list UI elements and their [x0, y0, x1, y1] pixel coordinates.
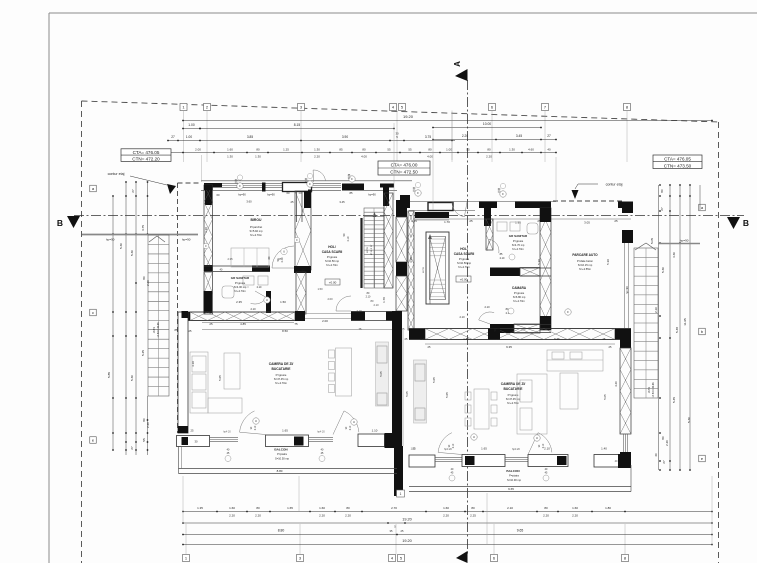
bottom dimension chain row1	[182, 506, 713, 518]
tiny circled tags above top wall	[237, 173, 505, 188]
hol door arc to living	[336, 292, 371, 311]
svg-text:80: 80	[544, 506, 548, 510]
svg-text:60: 60	[217, 193, 220, 197]
balcony drain tags left	[225, 449, 325, 462]
svg-text:1.05: 1.05	[411, 448, 416, 451]
svg-text:1.65: 1.65	[282, 429, 288, 433]
svg-text:hp4 20: hp4 20	[317, 431, 325, 434]
CTA CTN box left	[121, 149, 171, 162]
left exterior stair	[148, 235, 169, 396]
svg-text:F: F	[351, 177, 353, 181]
svg-text:27: 27	[171, 135, 175, 139]
svg-text:8.80: 8.80	[277, 469, 283, 473]
svg-text:2.10: 2.10	[507, 506, 513, 510]
top dimension chain third row	[167, 132, 557, 142]
svg-text:BALCON: BALCON	[506, 469, 520, 473]
svg-text:2.10: 2.10	[347, 236, 350, 241]
svg-text:F: F	[502, 192, 504, 196]
svg-text:CASA SCARII: CASA SCARII	[322, 250, 343, 254]
axis markers left side	[90, 185, 97, 443]
svg-text:80: 80	[256, 506, 260, 510]
svg-text:25: 25	[191, 429, 194, 433]
svg-text:1.85: 1.85	[420, 337, 426, 341]
svg-text:2.20: 2.20	[665, 440, 669, 446]
svg-text:1.50: 1.50	[280, 300, 286, 304]
svg-text:2.20: 2.20	[255, 514, 261, 518]
svg-text:85: 85	[350, 191, 353, 195]
svg-text:1.40: 1.40	[601, 447, 607, 451]
gr sanitar walls left	[204, 272, 307, 314]
lot boundary dashed	[82, 101, 721, 563]
svg-text:P=dale beton: P=dale beton	[577, 259, 593, 263]
svg-text:19.20: 19.20	[403, 114, 414, 119]
svg-text:+0.00: +0.00	[329, 281, 337, 285]
svg-text:18 TR: 18 TR	[648, 386, 651, 393]
gr sanitar door arc left	[242, 286, 266, 304]
left unit window sill tags hp	[223, 431, 325, 434]
left stair direction arrow	[149, 236, 165, 242]
svg-text:2.20: 2.20	[146, 422, 150, 428]
svg-text:9.65: 9.65	[517, 529, 524, 533]
svg-text:U: U	[255, 419, 257, 423]
svg-text:hp=90: hp=90	[625, 286, 629, 294]
living room label left	[269, 362, 294, 385]
svg-text:80: 80	[142, 418, 146, 422]
svg-text:2.35: 2.35	[236, 300, 242, 304]
svg-text:1.87: 1.87	[463, 337, 469, 341]
right unit middle wall horizontal	[405, 329, 631, 350]
left unit left wall birou	[204, 185, 213, 271]
contur etaj dashed line left	[178, 183, 202, 433]
svg-text:19.20: 19.20	[402, 539, 412, 543]
svg-text:4.10: 4.10	[191, 361, 195, 367]
svg-text:hp=90: hp=90	[368, 193, 376, 197]
svg-text:1.65: 1.65	[481, 447, 487, 451]
svg-text:S=5.92 mp: S=5.92 mp	[249, 229, 263, 233]
svg-text:80: 80	[660, 189, 664, 193]
svg-text:S=10.50 mp: S=10.50 mp	[457, 261, 472, 265]
svg-text:P=gresie: P=gresie	[276, 373, 287, 377]
svg-text:2.00: 2.00	[322, 319, 328, 323]
svg-text:5.65: 5.65	[554, 337, 560, 341]
svg-text:5.05: 5.05	[405, 391, 409, 397]
left unit interior vertical wall texts	[203, 237, 300, 249]
svg-text:h=+2.70m: h=+2.70m	[513, 299, 525, 303]
svg-text:3.45: 3.45	[516, 134, 522, 138]
svg-text:1.65: 1.65	[287, 506, 293, 510]
section line B-B	[57, 216, 749, 230]
top dimension chain fourth row detailed	[167, 147, 557, 158]
svg-text:hp=90: hp=90	[238, 193, 246, 197]
svg-text:8.80: 8.80	[278, 529, 285, 533]
svg-text:hp4 20: hp4 20	[512, 448, 520, 451]
svg-text:5.30: 5.30	[606, 259, 610, 265]
right kitchen counter	[547, 350, 603, 371]
svg-text:2.10: 2.10	[356, 309, 362, 313]
svg-text:B: B	[57, 218, 63, 228]
svg-text:8.15: 8.15	[294, 123, 301, 127]
svg-text:h=+2.70m: h=+2.70m	[326, 263, 338, 267]
svg-text:S=10.90 mp: S=10.90 mp	[507, 478, 522, 482]
svg-text:P=gresie: P=gresie	[514, 291, 525, 295]
svg-text:27: 27	[547, 134, 551, 138]
left vertical dimension chain	[107, 181, 150, 455]
svg-text:80: 80	[487, 147, 491, 151]
hol bottom wall stub	[351, 312, 397, 321]
svg-text:h=+2.70m: h=+2.70m	[234, 289, 246, 293]
svg-text:hp=90: hp=90	[182, 238, 191, 242]
bottom dimension chain row2 19.20	[182, 518, 713, 534]
svg-text:2.10: 2.10	[544, 447, 550, 451]
axis markers top	[180, 104, 631, 111]
svg-text:5.25: 5.25	[141, 350, 145, 356]
left unit top wall dimension texts	[210, 191, 377, 204]
svg-text:1.30: 1.30	[255, 154, 261, 158]
svg-text:S=47.45 mp: S=47.45 mp	[506, 397, 521, 401]
svg-text:18 TR: 18 TR	[367, 247, 369, 253]
svg-text:2.20: 2.20	[314, 154, 320, 158]
contur etaj label left	[108, 172, 176, 194]
svg-text:2.00: 2.00	[195, 147, 201, 151]
svg-text:4.20: 4.20	[614, 381, 618, 387]
camara door arc	[479, 308, 514, 324]
svg-text:11.95: 11.95	[683, 318, 687, 326]
dimension connector stubs top	[202, 112, 557, 210]
svg-text:80: 80	[428, 147, 432, 151]
svg-text:P=parchet: P=parchet	[250, 225, 263, 229]
svg-text:25: 25	[614, 219, 618, 223]
carport parcare auto	[572, 230, 633, 328]
gr sanitar right door arc	[487, 239, 515, 260]
svg-text:2.20: 2.20	[572, 514, 578, 518]
svg-text:2.10: 2.10	[654, 307, 658, 313]
svg-text:1: 1	[400, 492, 402, 496]
svg-text:60: 60	[287, 191, 290, 195]
dim 5.05 at kitchen	[379, 371, 383, 377]
svg-text:4.30: 4.30	[672, 252, 676, 258]
svg-text:S=47.45 mp: S=47.45 mp	[274, 377, 289, 381]
svg-text:S=10.50 mp: S=10.50 mp	[325, 259, 340, 263]
svg-text:+0.00: +0.00	[460, 278, 468, 282]
svg-text:18 TR: 18 TR	[423, 267, 425, 273]
svg-text:1.35: 1.35	[197, 506, 203, 510]
svg-text:1.00: 1.00	[186, 135, 192, 139]
svg-text:3.45: 3.45	[339, 200, 345, 204]
top dimension chain second row	[182, 122, 542, 129]
svg-text:27: 27	[131, 189, 135, 193]
svg-text:3.95: 3.95	[409, 257, 413, 263]
svg-text:P=gresie: P=gresie	[459, 257, 470, 261]
hol casa scarii label right	[454, 247, 475, 282]
left balcony	[179, 447, 398, 474]
birou door arc	[272, 246, 294, 268]
right kitchen counter party wall side	[414, 360, 427, 423]
svg-text:4.00: 4.00	[361, 154, 367, 158]
svg-text:2.20: 2.20	[486, 154, 492, 158]
left unit living room left wall	[175, 311, 192, 433]
svg-text:S=10.50 mp: S=10.50 mp	[275, 457, 290, 461]
in-plan rotated dims	[191, 227, 541, 398]
CTA CTN box right	[653, 155, 702, 169]
svg-text:CTN= 473.50: CTN= 473.50	[664, 163, 692, 168]
svg-text:U: U	[283, 250, 285, 254]
axis markers right side	[699, 204, 706, 462]
svg-text:5.05: 5.05	[432, 377, 436, 383]
birou right wall	[294, 191, 311, 273]
svg-text:2.70: 2.70	[391, 506, 397, 510]
svg-text:h=+2.70m: h=+2.70m	[250, 233, 263, 237]
room label gr sanitar right	[509, 234, 528, 251]
gr sanitar fixtures	[222, 276, 268, 298]
svg-text:1.60: 1.60	[572, 506, 578, 510]
svg-text:5.30: 5.30	[119, 243, 123, 249]
right unit top wall dims	[411, 219, 631, 225]
left unit entry door arc outside	[313, 170, 325, 182]
left living dining table	[329, 348, 352, 396]
svg-text:3.05: 3.05	[584, 221, 590, 225]
right stair direction arrow	[635, 243, 656, 250]
svg-text:2.10: 2.10	[373, 303, 379, 307]
svg-text:BUCATARIE: BUCATARIE	[272, 367, 292, 371]
right unit entry door arc	[452, 202, 467, 217]
svg-text:2.25: 2.25	[470, 514, 476, 518]
svg-text:h=+2.55m: h=+2.55m	[579, 267, 592, 271]
svg-text:GR SANITAR: GR SANITAR	[231, 276, 250, 280]
dimension connector stubs bottom	[183, 476, 712, 545]
svg-text:4.00: 4.00	[427, 154, 433, 158]
svg-text:55: 55	[466, 147, 470, 151]
svg-text:P=gresie: P=gresie	[327, 255, 338, 259]
right vertical dimension chain	[650, 184, 700, 471]
svg-text:17.50 X 30.88: 17.50 X 30.88	[157, 322, 160, 338]
svg-text:19.20: 19.20	[402, 518, 412, 522]
small leader texts near doors	[250, 305, 490, 319]
svg-text:CAMERA DE ZI/: CAMERA DE ZI/	[269, 362, 294, 366]
svg-text:2.10: 2.10	[459, 315, 465, 319]
svg-text:5.30: 5.30	[537, 259, 541, 265]
svg-text:3.30: 3.30	[204, 227, 208, 233]
svg-text:F: F	[417, 191, 419, 195]
svg-text:2.10: 2.10	[350, 425, 352, 430]
left kitchen counter	[376, 342, 389, 406]
svg-text:contur etaj: contur etaj	[606, 183, 623, 187]
svg-text:1.70: 1.70	[444, 220, 450, 224]
svg-text:2.20: 2.20	[345, 514, 351, 518]
section line A-A	[453, 61, 468, 563]
extra tiny interior dims right unit	[405, 381, 618, 463]
birou bottom wall	[204, 266, 305, 273]
svg-text:h=+2.70m: h=+2.70m	[507, 401, 520, 405]
svg-text:3.60: 3.60	[246, 200, 252, 204]
svg-text:5.30: 5.30	[130, 375, 134, 381]
svg-text:27: 27	[130, 446, 134, 450]
svg-text:1.95: 1.95	[515, 221, 521, 225]
svg-text:contur etaj: contur etaj	[108, 172, 125, 176]
top dimension chain overall 19.20	[182, 114, 713, 121]
balcony drain tags right	[449, 468, 549, 481]
window door tags circles	[237, 176, 571, 441]
svg-text:P=gresie: P=gresie	[513, 239, 524, 243]
svg-text:27: 27	[662, 460, 666, 464]
extra tiny interior dims left unit	[227, 191, 405, 331]
svg-text:25: 25	[291, 200, 294, 204]
svg-text:1.60: 1.60	[319, 506, 325, 510]
svg-text:U: U	[536, 436, 538, 440]
room label gr sanitar left	[231, 276, 250, 293]
right living room right wall	[620, 335, 631, 465]
svg-text:h=+2.70m: h=+2.70m	[512, 247, 524, 251]
svg-text:PARCARE AUTO: PARCARE AUTO	[572, 253, 598, 257]
right living dining table	[465, 389, 497, 429]
svg-text:2.20: 2.20	[319, 514, 325, 518]
svg-text:1.00: 1.00	[188, 123, 195, 127]
svg-text:27: 27	[660, 207, 664, 211]
svg-text:2.00: 2.00	[327, 297, 333, 301]
left unit top wall	[201, 181, 412, 222]
svg-text:1.60: 1.60	[229, 506, 235, 510]
svg-text:5.05: 5.05	[445, 392, 449, 398]
svg-text:1.00: 1.00	[446, 147, 452, 151]
stair up arrows	[373, 212, 432, 304]
right unit stair shaft	[423, 232, 449, 304]
svg-text:2.10: 2.10	[484, 305, 490, 309]
svg-text:55: 55	[142, 438, 146, 442]
axis markers bottom	[183, 555, 629, 562]
svg-text:3.85: 3.85	[247, 135, 253, 139]
svg-text:4.60: 4.60	[528, 147, 534, 151]
svg-text:1.60: 1.60	[443, 506, 449, 510]
svg-text:40: 40	[547, 147, 551, 151]
left unit interior stair	[362, 208, 385, 288]
svg-text:1.60: 1.60	[227, 147, 233, 151]
svg-text:5.05: 5.05	[603, 394, 607, 400]
svg-text:BALCON: BALCON	[274, 448, 288, 452]
svg-text:40: 40	[654, 453, 658, 457]
birou furniture desk	[231, 248, 269, 267]
svg-text:2.10: 2.10	[250, 307, 256, 311]
svg-text:80: 80	[661, 436, 665, 440]
svg-text:85: 85	[339, 147, 343, 151]
svg-text:U: U	[266, 298, 268, 302]
svg-text:2.20: 2.20	[462, 134, 468, 138]
right garden wall hp=90	[658, 239, 700, 244]
hol casa scarii label left	[322, 245, 343, 285]
wall between gr sanitar and living room	[181, 311, 305, 321]
svg-text:25: 25	[469, 219, 473, 223]
svg-text:5.45: 5.45	[672, 397, 676, 403]
svg-text:BIROU: BIROU	[251, 218, 262, 222]
svg-text:5.85: 5.85	[107, 372, 111, 378]
svg-text:U: U	[473, 435, 475, 439]
svg-text:HOL/: HOL/	[328, 245, 336, 249]
svg-text:17.50 X 27: 17.50 X 27	[371, 244, 373, 255]
svg-text:55: 55	[408, 147, 412, 151]
svg-text:2.10: 2.10	[453, 443, 455, 448]
svg-text:h=+2.70m: h=+2.70m	[458, 265, 470, 269]
svg-text:1.25: 1.25	[411, 219, 417, 223]
svg-text:CTA= 476.00: CTA= 476.00	[391, 163, 418, 168]
svg-text:2.10: 2.10	[543, 443, 545, 448]
svg-text:17.50 X 30.88: 17.50 X 30.88	[652, 382, 655, 398]
svg-text:CASA SCARII: CASA SCARII	[454, 252, 475, 256]
right unit hol top parapet	[415, 212, 449, 220]
contur etaj label right	[572, 183, 623, 200]
svg-text:P=piatra: P=piatra	[509, 474, 519, 478]
svg-text:hp=90: hp=90	[267, 193, 275, 197]
bottom dimension chain row3	[182, 529, 713, 536]
svg-text:18 TR: 18 TR	[153, 326, 156, 333]
svg-text:F: F	[309, 182, 311, 186]
door window stacked size tags	[235, 175, 501, 194]
right unit party-side wall	[408, 211, 414, 330]
svg-text:5.48: 5.48	[675, 327, 679, 333]
svg-text:B: B	[743, 218, 749, 228]
svg-text:3.90: 3.90	[342, 135, 348, 139]
bottom dimension chain row4 19.20	[182, 539, 713, 545]
svg-text:2.20: 2.20	[229, 514, 235, 518]
svg-text:80: 80	[471, 506, 475, 510]
right living island	[560, 373, 578, 409]
right gr sanitar fixtures	[497, 222, 538, 234]
room label birou	[249, 218, 263, 237]
right unit bottom wall	[394, 447, 631, 469]
room label camara	[512, 286, 527, 303]
svg-text:CAMARA: CAMARA	[512, 286, 527, 290]
svg-text:30: 30	[195, 440, 198, 444]
svg-text:10.00: 10.00	[483, 122, 491, 126]
svg-text:5.05: 5.05	[218, 375, 222, 381]
left unit bottom wall	[177, 429, 398, 449]
svg-text:HOL/: HOL/	[460, 247, 468, 251]
right balcony doors arcs	[438, 433, 552, 455]
left living furniture sofa corner	[190, 352, 242, 413]
svg-text:80: 80	[362, 147, 366, 151]
svg-text:80: 80	[256, 147, 260, 151]
svg-text:55: 55	[387, 147, 391, 151]
svg-text:CTN= 472.50: CTN= 472.50	[390, 170, 418, 175]
svg-text:1.50: 1.50	[317, 287, 323, 291]
svg-text:1.25: 1.25	[283, 147, 289, 151]
svg-text:2.35: 2.35	[227, 257, 233, 261]
svg-text:F: F	[567, 310, 569, 314]
living room label right	[501, 382, 526, 405]
svg-text:hp4 20: hp4 20	[444, 448, 452, 451]
svg-text:9.65: 9.65	[508, 487, 514, 491]
svg-text:S=4.70 mp: S=4.70 mp	[512, 243, 525, 247]
svg-text:S=6.80 mp: S=6.80 mp	[513, 295, 526, 299]
left garden wall hp=90	[82, 235, 198, 242]
svg-text:2.10: 2.10	[500, 257, 505, 260]
left hol right wall (party zone)	[384, 193, 393, 288]
contur etaj dashed line right (carport)	[553, 200, 624, 202]
svg-text:c: c	[92, 310, 94, 315]
svg-text:5.05: 5.05	[379, 371, 383, 377]
svg-text:1.10: 1.10	[372, 429, 378, 433]
svg-text:P=piatra: P=piatra	[277, 452, 287, 456]
svg-text:1.30: 1.30	[509, 147, 515, 151]
svg-text:2.10: 2.10	[257, 286, 262, 289]
svg-text:F: F	[239, 184, 241, 188]
axis box at balcony bottom	[397, 490, 405, 497]
svg-text:P=gresie: P=gresie	[235, 281, 246, 285]
svg-text:80: 80	[142, 276, 146, 280]
svg-text:75: 75	[294, 322, 298, 326]
svg-text:CTN= 472.20: CTN= 472.20	[132, 156, 160, 161]
svg-text:hp=90: hp=90	[106, 238, 115, 242]
middle dividing wall	[392, 200, 407, 496]
svg-text:2.10: 2.10	[255, 425, 257, 430]
svg-text:3.75: 3.75	[141, 225, 145, 231]
